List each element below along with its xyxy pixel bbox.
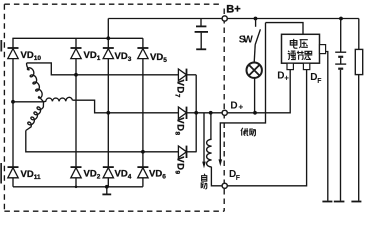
alternator dashed enclosure top border xyxy=(4,3,221,5)
wire VD3/VD4 column xyxy=(107,38,109,187)
junction ground on negative bus xyxy=(105,185,109,189)
stator phase A winding coil (wavy) xyxy=(27,63,44,102)
switch SW blade xyxy=(255,29,260,44)
label ta li (separately excited) xyxy=(241,128,256,136)
diode VD11 xyxy=(8,167,19,178)
wire lamp to D+ node xyxy=(254,78,256,113)
stator phase C winding coil (wavy) xyxy=(26,102,44,131)
svg-text:+: + xyxy=(238,102,243,112)
diode VD9 xyxy=(178,146,196,158)
junction battery on B+ wire xyxy=(339,17,343,21)
ground bar negative bus xyxy=(102,193,111,195)
ground bar under capacitor xyxy=(196,48,206,50)
junction exciter bus / D+ xyxy=(194,111,198,115)
diode VD1 xyxy=(71,48,82,59)
label dian ya (voltage) xyxy=(290,39,308,48)
battery GB inter-cell lead xyxy=(340,58,342,64)
load resistor R xyxy=(355,49,362,74)
battery GB bottom lead xyxy=(340,70,342,201)
label tiao jie qi (regulator) xyxy=(288,51,313,60)
terminal B+ (open circle) xyxy=(222,16,227,21)
stator phase B winding coil (horizontal) xyxy=(44,97,73,101)
field winding bottom lead to DF terminal xyxy=(211,167,222,186)
wire VD5/VD6 column xyxy=(142,38,144,187)
separate-excitation arrowhead xyxy=(219,159,223,166)
self-excitation current arrow (zi li) xyxy=(202,113,206,169)
battery GB cell 1 short plate xyxy=(338,56,343,58)
wire exciter diode cathode bus xyxy=(195,75,197,152)
junction neutral node xyxy=(11,100,15,104)
battery GB cell 2 short plate xyxy=(338,68,343,70)
wire riser from rectifier + bus to B+ wire xyxy=(107,19,109,39)
field winding (rotor coil) xyxy=(207,139,212,167)
load resistor R bottom lead xyxy=(358,75,360,201)
battery GB top lead xyxy=(340,19,342,53)
diode VD8 xyxy=(178,107,196,119)
alternator dashed enclosure bottom border xyxy=(4,210,224,212)
wire VD10/VD11 column xyxy=(12,38,14,187)
junction phase B node xyxy=(106,111,110,115)
ground bar load xyxy=(351,201,361,203)
junction phase C node xyxy=(141,150,145,154)
junction riser/bus xyxy=(106,36,110,40)
wire D+ output xyxy=(196,70,290,113)
diode VD7 xyxy=(76,69,196,81)
diode VD5 xyxy=(137,48,148,59)
wire switch to charge lamp xyxy=(254,45,255,63)
diode VD6 xyxy=(137,167,148,178)
separate-excitation current path (ta li) xyxy=(220,23,265,160)
capacitor C top plate xyxy=(196,25,206,27)
junction SW branch on B+ wire xyxy=(254,17,258,21)
svg-text:B+: B+ xyxy=(226,4,240,16)
svg-text:F: F xyxy=(317,78,322,85)
voltage regulator box xyxy=(282,34,320,63)
wire rectifier negative bus (bottom) xyxy=(13,186,143,188)
diode VD4 xyxy=(103,167,114,178)
stator phase B wire to VD3/VD4 and VD8 xyxy=(73,100,179,113)
stator neutral point wire to VD10/VD11 xyxy=(13,101,44,103)
terminal D+ (open circle) xyxy=(222,110,227,115)
alternator dashed enclosure right border xyxy=(223,9,225,212)
alternator dashed enclosure left border xyxy=(3,4,5,211)
svg-text:SW: SW xyxy=(239,35,254,46)
field winding top lead xyxy=(210,113,212,140)
junction VD2 on negative bus xyxy=(75,186,78,189)
wire regulator E to ground xyxy=(326,52,328,201)
capacitor C ground lead xyxy=(200,33,202,49)
edge artifact bar upper-left xyxy=(0,40,2,52)
ground bar regulator E xyxy=(322,201,332,203)
regulator bottom tab DF xyxy=(303,63,309,69)
wire rectifier positive bus xyxy=(12,37,143,39)
junction phase A node xyxy=(74,73,78,77)
wire DF to regulator xyxy=(227,70,307,186)
svg-text:D: D xyxy=(230,100,237,111)
charge indicator lamp HL xyxy=(247,62,262,77)
load resistor R top lead xyxy=(358,19,360,50)
diode VD10 xyxy=(8,48,19,59)
capacitor C bottom plate xyxy=(195,31,208,33)
edge artifact bar lower-left xyxy=(0,163,2,184)
wire regulator B terminal from ignition branch xyxy=(266,23,304,35)
ground bar battery xyxy=(334,201,345,203)
regulator side tab (ground terminal) xyxy=(320,45,326,54)
stator phase A winding terminal wire xyxy=(27,63,76,75)
svg-text:+: + xyxy=(284,74,289,83)
junction field coil / D+ xyxy=(209,111,213,115)
wire VD1/VD2 column xyxy=(75,38,77,187)
ground stub negative bus xyxy=(106,187,108,194)
capacitor C (noise suppressor) lead xyxy=(200,19,202,26)
switch SW stub xyxy=(255,19,257,27)
stator phase C wire to VD5/VD6 and VD9 xyxy=(26,131,179,152)
diode VD3 xyxy=(103,48,114,59)
svg-text:F: F xyxy=(236,175,241,182)
junction lamp on D+ wire xyxy=(253,111,257,115)
battery GB cell 1 long plate xyxy=(335,51,346,53)
diode VD2 xyxy=(71,167,82,178)
regulator bottom tab D+ xyxy=(287,63,293,69)
terminal DF (open circle) xyxy=(222,183,227,188)
battery GB cell 2 long plate xyxy=(335,63,346,65)
wire B+ bus (top) xyxy=(108,18,358,20)
label zi li (self-excited) stacked xyxy=(201,174,207,189)
